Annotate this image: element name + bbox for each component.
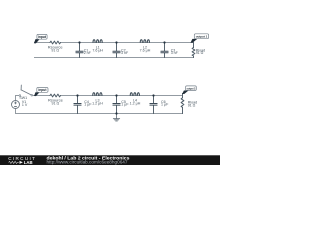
svg-text:1.2 μH: 1.2 μH [130,102,141,106]
svg-text:http://www.circuitlab.com/c6ee: http://www.circuitlab.com/c6ee8hg0647 [47,160,129,165]
svg-text:output 1: output 1 [196,34,208,38]
svg-text:1 μF: 1 μF [84,102,92,106]
svg-text:7.6 μH: 7.6 μH [92,49,103,53]
svg-text:7.6 μH: 7.6 μH [140,49,151,53]
svg-text:3 nF: 3 nF [121,51,129,55]
svg-text:3 nF: 3 nF [171,51,179,55]
svg-text:input: input [38,88,47,92]
svg-text:2 nF: 2 nF [84,51,92,55]
svg-text:1 μF: 1 μF [121,102,129,106]
svg-text:input: input [38,35,47,39]
svg-text:91 Ω: 91 Ω [196,51,204,55]
svg-text:91 Ω: 91 Ω [188,103,196,107]
svg-text:output 2: output 2 [187,86,196,90]
svg-text:1 V: 1 V [22,103,28,107]
svg-text:1 μF: 1 μF [161,102,169,106]
svg-text:LAB: LAB [24,160,33,165]
svg-text:91 Ω: 91 Ω [51,49,59,53]
svg-text:1.2 μH: 1.2 μH [92,102,103,106]
svg-text:91 Ω: 91 Ω [52,101,60,105]
